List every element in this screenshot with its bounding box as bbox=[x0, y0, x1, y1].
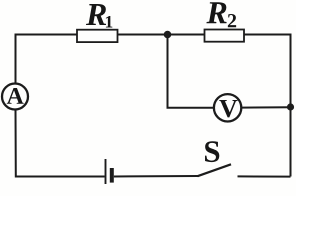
wire bbox=[16, 110, 105, 177]
label R1 bbox=[86, 4, 112, 27]
battery bbox=[106, 159, 112, 184]
wire bbox=[114, 175, 198, 178]
wire bbox=[244, 35, 291, 108]
resistor R1 bbox=[77, 30, 118, 42]
wire bbox=[241, 106, 290, 108]
switch S bbox=[198, 164, 291, 176]
ammeter A bbox=[2, 84, 28, 110]
resistor R2 bbox=[205, 30, 245, 42]
voltmeter V bbox=[214, 94, 241, 121]
node junction bbox=[287, 103, 294, 110]
label A (ammeter letter) bbox=[7, 88, 24, 104]
label R2 bbox=[206, 2, 236, 27]
label V (voltmeter letter) bbox=[219, 100, 237, 117]
wire bbox=[290, 107, 292, 177]
wire bbox=[118, 34, 168, 36]
wire bbox=[168, 35, 214, 108]
wire bbox=[16, 35, 78, 84]
wire bbox=[168, 34, 205, 36]
label S (switch) bbox=[205, 141, 219, 162]
node junction bbox=[164, 31, 172, 39]
